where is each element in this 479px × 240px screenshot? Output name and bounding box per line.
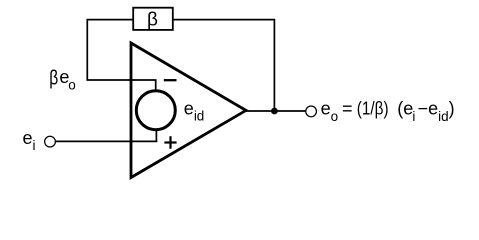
svg-text:eo: eo [321, 99, 339, 124]
wire feedback left: beta box to inverting input [87, 20, 155, 90]
wire output [246, 110, 306, 112]
wire input e_i [56, 140, 158, 142]
minus sign (inverting input) [164, 79, 177, 81]
svg-text:eid: eid [184, 98, 205, 123]
terminal output (open circle) [306, 106, 317, 117]
svg-text:=: = [342, 99, 353, 119]
wire feedback right: beta box to output node [173, 20, 275, 111]
wire stub source bottom to noninverting input [155, 129, 157, 141]
svg-text:ei: ei [23, 128, 36, 153]
svg-text:β: β [49, 68, 58, 90]
plus sign (noninverting input) [164, 141, 176, 143]
svg-text:eo: eo [59, 67, 75, 92]
svg-text:(ei−eid): (ei−eid) [397, 99, 454, 124]
node junction dot [271, 108, 278, 115]
svg-text:β: β [147, 10, 158, 31]
source e_id (differential input source) [136, 91, 175, 130]
block B1 (feedback network) [133, 8, 173, 30]
svg-text:(1/β): (1/β) [357, 99, 389, 119]
op-amp U1 [131, 43, 246, 178]
terminal input (open circle) [45, 136, 56, 147]
